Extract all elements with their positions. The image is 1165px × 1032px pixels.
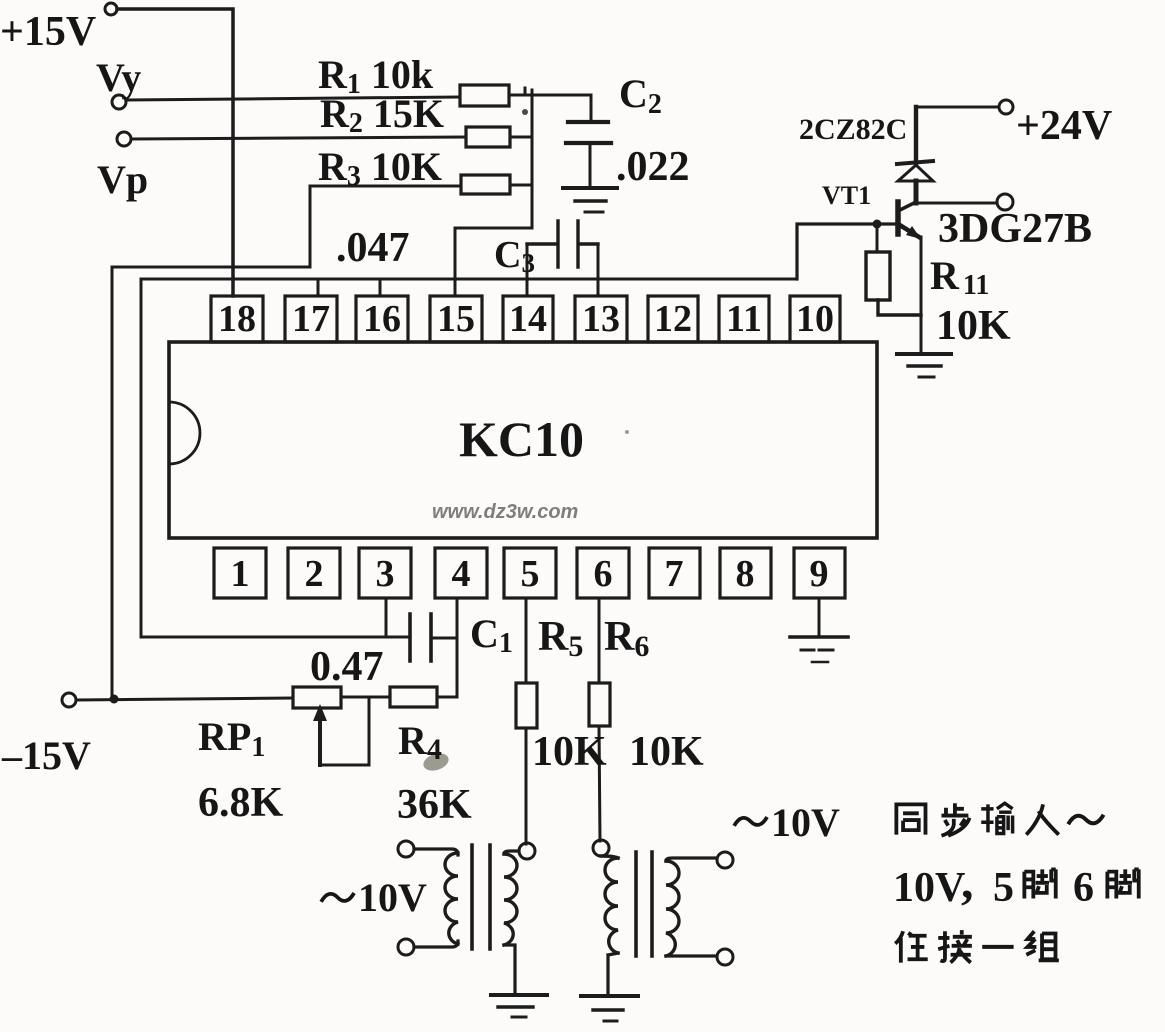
svg-text:KC10: KC10 (459, 411, 584, 467)
pin 9 (794, 548, 845, 598)
wire diode to +24V (916, 106, 999, 109)
wire R5 to transformer T1 (525, 728, 528, 844)
wire R4 to pin 4 (437, 696, 457, 699)
ground C2 (563, 186, 617, 190)
svg-text:.022: .022 (616, 144, 690, 190)
resistor R5 (516, 683, 537, 728)
T2 primary winding (601, 856, 618, 953)
resistor R2 (466, 127, 510, 147)
pin 13 (575, 296, 627, 342)
terminal -15V (62, 693, 76, 707)
svg-text:17: 17 (292, 298, 330, 340)
ground T1 (491, 993, 547, 997)
note line 3 (895, 930, 1059, 962)
T1 primary leads (414, 849, 458, 947)
svg-text:R3 10K: R3 10K (318, 144, 442, 192)
svg-text:7: 7 (665, 553, 684, 595)
capacitor C3 (527, 221, 598, 267)
svg-text:3: 3 (376, 553, 395, 595)
pin 6 (577, 548, 629, 598)
wire collector node to terminal (916, 202, 997, 205)
wire pin 3 down (385, 598, 388, 637)
resistor R1 (460, 85, 509, 106)
svg-text:4: 4 (452, 553, 471, 595)
ink speck (625, 430, 629, 434)
wire loop A to pin 17 rail (112, 267, 310, 699)
pin 10 (790, 296, 840, 342)
T2 core (636, 852, 652, 956)
pin 16 (356, 296, 408, 342)
pin 17 (285, 296, 337, 342)
svg-text:10V: 10V (893, 865, 965, 911)
svg-text:14: 14 (509, 298, 547, 340)
diode 2CZ82C (914, 107, 918, 163)
svg-text:10V: 10V (358, 875, 427, 920)
svg-text:18: 18 (218, 298, 256, 340)
wire R11 top (876, 224, 879, 252)
transistor VT1 base bar (895, 202, 901, 234)
svg-text:8: 8 (736, 553, 755, 595)
transformer T2 secondary terminal top (717, 852, 733, 868)
ground pin 9 (790, 635, 848, 639)
node Vy terminal (112, 95, 126, 109)
pin 15 (430, 296, 482, 342)
wire C1 rail (141, 636, 410, 639)
svg-text:2CZ82C: 2CZ82C (799, 113, 907, 146)
T2 primary bottom lead (608, 953, 618, 994)
T1 primary winding (445, 853, 458, 944)
node T2 primary top (593, 840, 609, 856)
wire R2 to bus (510, 136, 532, 139)
scan smudge (421, 750, 451, 773)
wire R6 to transformer T2 (599, 726, 600, 841)
wire RP1 wiper strap (320, 699, 369, 765)
svg-text:6.8K: 6.8K (198, 780, 284, 826)
resistor R11 (866, 252, 890, 300)
wire loop B long rail (141, 279, 797, 637)
svg-text:10K: 10K (629, 729, 704, 775)
resistor R3 (461, 175, 510, 194)
node Vp terminal (117, 132, 131, 146)
transformer T2 secondary terminal bottom (717, 949, 733, 965)
svg-text:www.dz3w.com: www.dz3w.com (432, 501, 578, 523)
VT1 collector lead (898, 202, 916, 211)
wire -15V rail (76, 698, 293, 700)
svg-text:0.47: 0.47 (310, 644, 384, 690)
note line 1 (896, 803, 1103, 835)
svg-text:10K: 10K (936, 303, 1011, 349)
wire pin 4 down (456, 598, 459, 697)
svg-text:15: 15 (437, 298, 475, 340)
wire bus to pin 15 (455, 90, 532, 296)
svg-text:13: 13 (582, 298, 620, 340)
svg-text:Vy: Vy (96, 55, 141, 100)
T1 core (472, 845, 490, 949)
pin 14 (503, 296, 553, 342)
svg-text:36K: 36K (397, 782, 472, 828)
svg-text:9: 9 (810, 553, 829, 595)
pin 5 (504, 548, 556, 598)
svg-text:6: 6 (1073, 865, 1094, 911)
wire pin 17 stub (317, 279, 320, 296)
svg-text:–15V: –15V (1, 733, 91, 778)
ground VT1 emitter (897, 352, 951, 356)
capacitor C1 (410, 614, 431, 661)
pin 12 (648, 296, 698, 342)
VT1 emitter lead (898, 224, 919, 237)
T1 secondary winding (504, 854, 517, 945)
wire R3 left leg (310, 186, 461, 267)
node base junction (873, 220, 882, 229)
terminal collector output (997, 194, 1013, 210)
node junction -15V rail (110, 695, 119, 704)
pin 18 (211, 296, 263, 342)
note line 2 (893, 853, 1139, 911)
wire +15V to pin 18 (117, 9, 233, 296)
wire pin 9 down (818, 598, 821, 637)
transformer T1 primary terminal bottom (398, 939, 414, 955)
wire C3 to pin 13 (597, 244, 600, 296)
svg-text:.047: .047 (336, 225, 410, 271)
svg-text:3DG27B: 3DG27B (938, 206, 1092, 252)
svg-text:,: , (961, 853, 974, 909)
transformer T1 primary terminal top (398, 841, 414, 857)
label ~10V T1 (321, 875, 427, 920)
T2 secondary leads (666, 858, 716, 956)
svg-text:10K: 10K (532, 729, 607, 775)
T1 secondary top lead to node (504, 851, 519, 854)
pin 11 (719, 296, 769, 342)
T1 secondary bottom lead (504, 945, 515, 993)
wire pin 5 down (525, 598, 528, 683)
terminal +24V (999, 100, 1013, 114)
svg-text:10V: 10V (771, 800, 840, 845)
svg-text:6: 6 (594, 553, 613, 595)
ground T2 (581, 994, 638, 998)
pin 3 (359, 548, 411, 598)
resistor R6 (589, 683, 610, 726)
IC notch (169, 402, 200, 464)
resistor R4 (390, 687, 437, 707)
pin 7 (649, 548, 700, 598)
capacitor C2 (590, 95, 593, 122)
svg-text:+24V: +24V (1016, 103, 1112, 149)
terminal +15V (105, 3, 117, 15)
svg-text:5: 5 (521, 553, 540, 595)
pin 8 (720, 548, 771, 598)
wire pin 6 down (598, 598, 601, 683)
pin 2 (288, 548, 340, 598)
wire RP1 to R4 (341, 696, 390, 699)
wire pin13 rail to VT1 base (797, 224, 898, 279)
svg-text:2: 2 (305, 553, 324, 595)
pin 1 (214, 548, 266, 598)
wire pin 16 stub (379, 279, 382, 296)
svg-text:VT1: VT1 (822, 181, 871, 210)
wire emitter down (920, 237, 923, 353)
IC U1 KC10 body (169, 342, 877, 538)
svg-text:10: 10 (796, 298, 834, 340)
wire Vy to R1 (126, 97, 460, 100)
node T1 secondary top (519, 843, 535, 859)
wire R11 bottom to emitter (878, 300, 921, 315)
svg-text:R2 15K: R2 15K (320, 91, 444, 139)
svg-text:Vp: Vp (97, 157, 148, 202)
wire C3 to pin 14 (526, 244, 529, 296)
svg-text:11: 11 (726, 298, 762, 340)
T2 secondary winding (666, 861, 679, 956)
potentiometer RP1 (293, 687, 341, 708)
svg-text:16: 16 (363, 298, 401, 340)
ink speck (522, 109, 528, 115)
wire Vp to R2 (131, 137, 466, 139)
wire R1 to bus and C2 (509, 88, 591, 95)
pin 4 (435, 548, 487, 598)
wire R3 to bus (510, 184, 532, 187)
svg-text:12: 12 (654, 298, 692, 340)
svg-text:+15V: +15V (0, 9, 96, 55)
svg-text:5: 5 (993, 865, 1014, 911)
RP1 wiper arrow (318, 716, 322, 765)
svg-text:1: 1 (231, 553, 250, 595)
label ~10V T2 (734, 800, 840, 845)
